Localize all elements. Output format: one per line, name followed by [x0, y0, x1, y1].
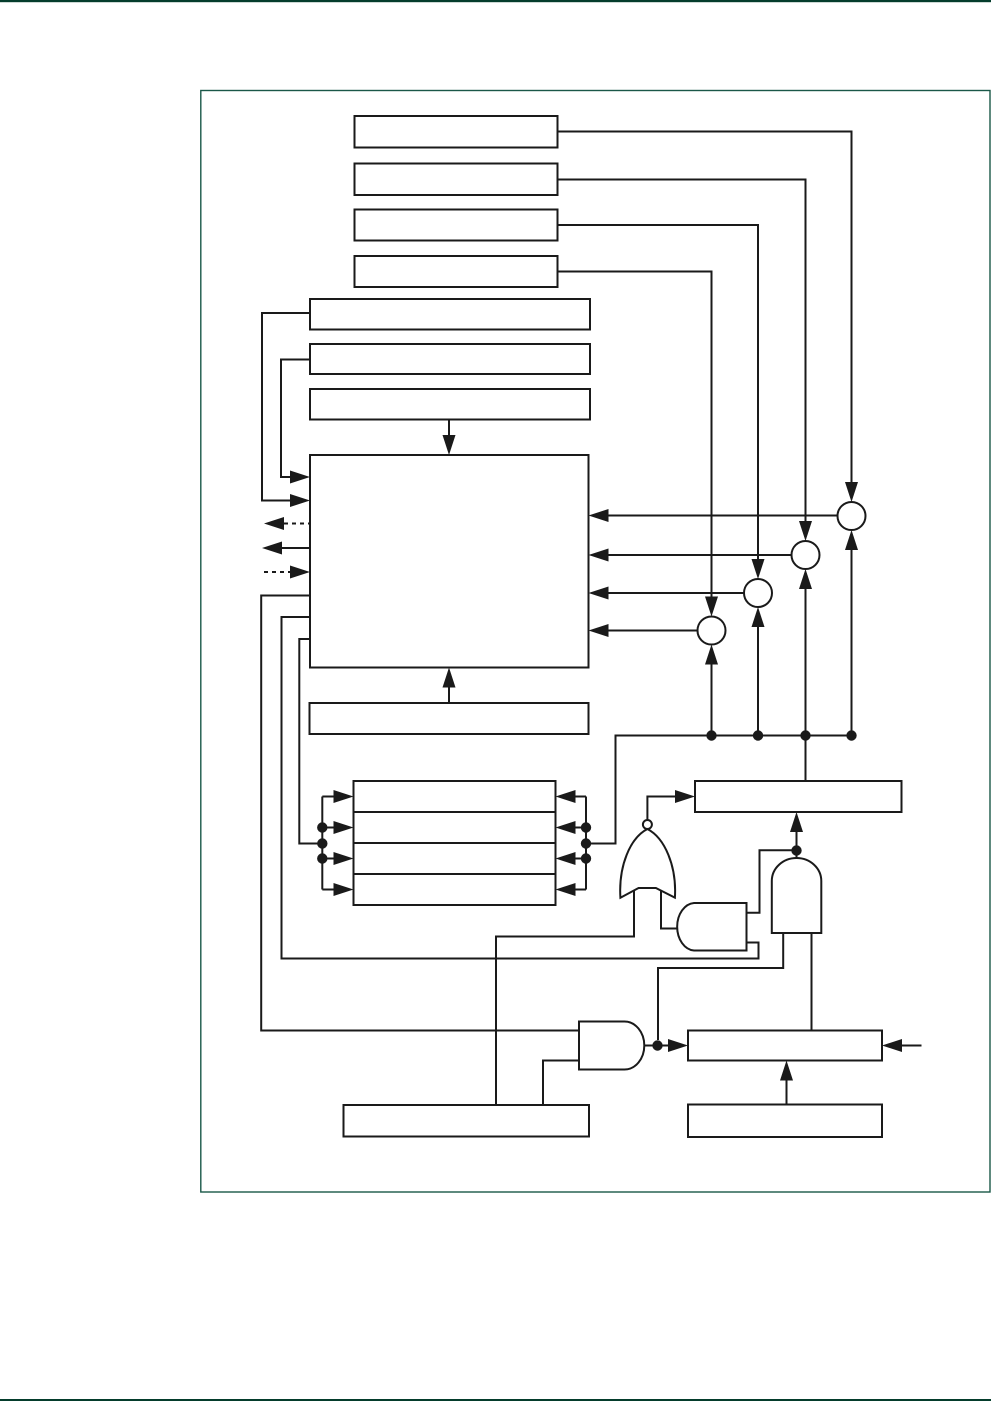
box MA (wide register A)	[310, 299, 590, 330]
wire box MC down into main block	[448, 420, 450, 438]
AND gate A2 (left pointing)	[677, 903, 746, 951]
junction dot left rail row2	[317, 822, 327, 832]
junction dot bus x758	[753, 730, 763, 740]
NOR gate G1 right input wire from AND gate A2 output	[661, 890, 677, 929]
box TR2 (top register 2)	[355, 164, 558, 196]
right rail branch row2	[573, 827, 586, 829]
page header rule	[0, 0, 991, 2]
comparator circle C3	[744, 579, 772, 607]
box MD (register below main block)	[310, 703, 589, 734]
wire comparator C2 output to main block	[606, 554, 792, 556]
wire box MA to main block input	[262, 313, 310, 501]
wire TR3 to comparator circle C3	[558, 225, 759, 561]
junction dot bus x805	[800, 730, 810, 740]
figure frame	[201, 91, 990, 1193]
box MB (wide register B)	[310, 344, 590, 374]
right rail branch row3	[573, 858, 586, 860]
wire bus rail up into C4 bottom	[711, 663, 713, 736]
wire TR2 to comparator circle C2	[558, 180, 806, 524]
comparator circle C4	[698, 617, 726, 645]
junction dot right rail row3	[581, 853, 591, 863]
wire TR1 to comparator circle C1	[558, 132, 852, 485]
register stack divider 2	[354, 842, 556, 844]
left rail branch row2	[322, 827, 336, 829]
wire TR4 to comparator circle C4	[558, 272, 712, 599]
wire box MB to main block input	[281, 360, 310, 478]
bus rail horizontal with junctions	[586, 736, 852, 844]
box RB2 (bottom right register)	[688, 1105, 882, 1138]
wire comparator C3 output to main block	[606, 592, 744, 594]
right rail branch row4	[573, 889, 586, 891]
wire comparator C1 output to main block	[606, 515, 838, 517]
NAND gate G2 body	[579, 1022, 644, 1070]
box MC (wide register C)	[310, 389, 590, 420]
AND gate A3 left input wire from NAND output node	[658, 933, 783, 1040]
box RM (mode register)	[688, 1031, 882, 1061]
junction dot left rail row3	[317, 853, 327, 863]
register stack divider 3	[354, 873, 556, 875]
wire bus rail down into box RR top	[805, 736, 807, 782]
register stack left rail	[321, 797, 323, 890]
box BL1 (bottom left register)	[344, 1105, 590, 1137]
box TR1 (top register 1)	[355, 116, 558, 148]
AND gate A2 upper input wire from A3 output branch	[747, 850, 797, 912]
right rail branch row1	[573, 796, 586, 798]
box RR (right control register)	[695, 781, 902, 812]
dashed input arrow (lower)	[264, 571, 291, 573]
NAND gate G2 lower input wire from box BL1	[543, 1061, 579, 1106]
register stack (4 rows)	[354, 781, 556, 905]
NOR gate G1 body	[620, 829, 675, 898]
wire main block to NAND gate top input	[261, 596, 578, 1031]
box TR3 (top register 3)	[355, 210, 558, 241]
wire main block to register stack left rail	[299, 639, 322, 844]
dashed output arrow left (upper)	[284, 523, 310, 525]
wire box MD up into main block	[448, 688, 450, 704]
wire bus rail up into C3 bottom	[757, 625, 759, 736]
page footer rule	[0, 1399, 991, 1401]
wire comparator C4 output to main block	[606, 630, 698, 632]
junction dot NAND output	[652, 1040, 662, 1050]
NOR gate G1 output wire to box RR	[647, 797, 678, 821]
junction dot right rail feed	[581, 838, 591, 848]
AND gate A3 (tall, up pointing)	[772, 858, 822, 933]
comparator circle C2	[792, 541, 820, 569]
register stack divider 1	[354, 811, 556, 813]
wire bus rail up into C1 bottom	[851, 548, 853, 736]
junction dot bus x712	[706, 730, 716, 740]
left rail branch row3	[322, 858, 336, 860]
wire main block to AND gate A2 lower input	[282, 617, 759, 959]
box TR4 (top register 4)	[355, 256, 558, 287]
AND gate A3 right input wire from box RM	[811, 933, 813, 1031]
left rail branch row1	[322, 796, 336, 798]
junction dot left rail feed	[317, 838, 327, 848]
external input stub into box RM right	[902, 1045, 922, 1047]
NOR gate G1 left input wire from box BL1	[496, 890, 634, 1105]
solid output arrow left	[282, 547, 310, 549]
left rail branch row4	[322, 889, 336, 891]
junction dot A3 output	[791, 845, 801, 855]
wire box RB2 up into box RM	[786, 1079, 788, 1105]
NAND gate G2 output wire to box RM	[644, 1045, 671, 1047]
junction dot right rail row2	[581, 822, 591, 832]
junction dot bus x851	[846, 730, 856, 740]
AND gate A3 output wire up into box RR	[796, 830, 798, 858]
wire bus rail up into C2 bottom	[805, 587, 807, 736]
main block U1 (shift register / control)	[310, 455, 589, 668]
comparator circle C1	[838, 502, 866, 530]
NOR gate G1 bubble	[643, 820, 652, 829]
register stack right rail	[585, 797, 587, 890]
